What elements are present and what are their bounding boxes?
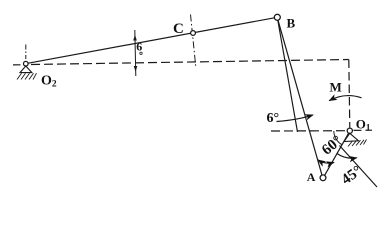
- svg-text:45°: 45°: [339, 163, 365, 188]
- svg-text:A: A: [307, 170, 316, 184]
- svg-text:O2: O2: [41, 74, 57, 90]
- svg-text:60°: 60°: [319, 133, 345, 159]
- svg-text:B: B: [287, 16, 296, 31]
- svg-text:6°: 6°: [267, 111, 280, 126]
- svg-text:6: 6: [136, 40, 142, 54]
- svg-text:C: C: [173, 21, 184, 37]
- svg-text:M: M: [330, 80, 342, 95]
- svg-text:O1: O1: [356, 117, 371, 133]
